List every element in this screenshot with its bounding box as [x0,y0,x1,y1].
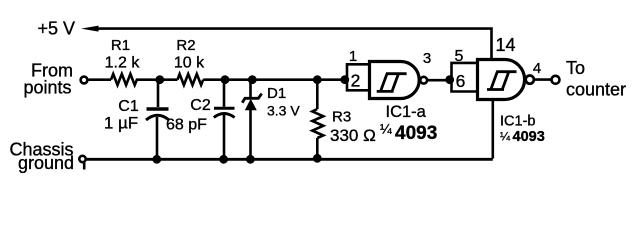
wire IC1-a input pins 1 and 2 [347,64,370,90]
label IC1-a [386,103,427,121]
node: R3 top junction [313,75,322,84]
node: To counter output terminal [552,76,560,84]
op-amp gate IC1-b body [478,60,525,100]
zener diode D1 wire bottom [249,110,252,159]
svg-text:R3: R3 [332,109,351,126]
zener diode D1 cathode bar [242,94,262,103]
capacitor C1 [146,109,169,120]
svg-text:4: 4 [533,60,541,77]
label R3 [332,109,351,126]
label R3 value 330 ohm [330,126,376,145]
pin 3 label [423,50,431,67]
svg-text:14: 14 [496,35,516,55]
node: IC1-b input junction [445,75,454,84]
svg-text:IC1-b: IC1-b [500,114,535,130]
svg-text:¼: ¼ [380,121,392,137]
svg-text:C2: C2 [190,97,211,114]
node: From points input terminal [81,77,88,84]
svg-text:6: 6 [456,71,466,91]
capacitor C2 wire top [223,81,226,107]
resistor R3 wire top [316,81,319,109]
IC1-b schmitt hysteresis symbol [487,72,517,90]
label D1 [267,85,286,102]
pin 4 label [533,60,541,77]
capacitor C1 wire top [157,81,160,107]
+5V rail arrowhead [81,26,99,32]
svg-text:+5 V: +5 V [38,19,76,39]
svg-text:1 µF: 1 µF [104,114,138,133]
label R1 [111,37,130,54]
wire IC1-b output to terminal [534,78,551,81]
node: R3 ground junction [313,154,322,163]
wire IC1-b pin 7 to ground rail [491,99,494,159]
resistor R3 [312,109,323,138]
+5 V supply label [38,19,76,39]
resistor R1 [111,74,139,85]
capacitor C1 wire bottom [156,117,159,158]
resistor R3 wire bottom [316,138,319,158]
From points label [23,61,73,98]
pin 6 label [456,71,466,91]
svg-text:4093: 4093 [395,123,437,144]
svg-text:3: 3 [423,50,431,67]
node: D1 ground junction [246,155,255,164]
pin 5 label [455,48,464,65]
svg-text:ground: ground [18,153,74,173]
wire input terminal to R1 [88,78,111,81]
svg-text:5: 5 [455,48,464,65]
ground rail wire [87,158,493,161]
svg-text:2: 2 [351,71,361,91]
svg-text:IC1-a: IC1-a [386,103,427,121]
wire +5V top rail to pin 14 [96,29,492,60]
zener diode D1 wire top [249,81,252,97]
wire IC1-b input pins 5 and 6 [452,63,478,92]
label C2 value 68 pF [166,117,207,134]
svg-text:¼: ¼ [500,130,511,144]
svg-text:3.3 V: 3.3 V [267,103,300,119]
svg-text:To: To [566,58,585,78]
capacitor C2 wire bottom [223,115,226,159]
Chassis ground label [9,140,74,174]
node: C1 top junction [155,75,164,84]
label R1 value 1.2 k [105,55,141,72]
svg-text:points: points [23,78,71,98]
svg-text:4093: 4093 [513,129,545,145]
svg-text:1.2 k: 1.2 k [105,55,141,72]
pin 1 label [349,48,357,65]
label IC1-b quarter 4093 [500,129,545,145]
label R2 [176,37,195,54]
label IC1-a quarter 4093 [380,121,437,145]
svg-text:counter: counter [566,80,626,100]
label IC1-b [500,114,535,130]
svg-text:68 pF: 68 pF [166,117,207,134]
IC1-a output bubble [420,77,427,84]
IC1-b output bubble [526,76,534,84]
node: chassis ground terminal [79,156,85,170]
label C1 [118,98,139,115]
label C1 value 1 uF [104,114,138,133]
svg-text:R1: R1 [111,37,130,54]
label R2 value 10 k [174,55,205,72]
node: IC1-a input junction [340,75,349,84]
wire R2 to gate IC1-a input [203,78,345,81]
op-amp gate IC1-a body [370,62,420,99]
wire R1 to R2 [139,78,178,81]
node: C2 top junction [221,75,230,84]
capacitor C2 [214,108,235,117]
To counter label [566,58,626,100]
pin 2 label [351,71,361,91]
node: C1 ground junction [152,155,161,164]
svg-text:C1: C1 [118,98,139,115]
wire IC1-a output to IC1-b input [427,79,450,82]
node: C2 ground junction [219,155,228,164]
node: D1 top junction [248,75,257,84]
label C2 [190,97,211,114]
svg-text:R2: R2 [176,37,195,54]
label D1 value 3.3 V [267,103,300,119]
IC1-a schmitt hysteresis symbol [377,74,407,92]
pin 14 label [496,35,516,55]
svg-text:D1: D1 [267,85,286,102]
svg-text:330 Ω: 330 Ω [330,126,376,145]
zener diode D1 anode triangle [245,99,257,111]
resistor R2 [178,74,204,85]
svg-text:1: 1 [349,48,357,65]
svg-text:10 k: 10 k [174,55,205,72]
